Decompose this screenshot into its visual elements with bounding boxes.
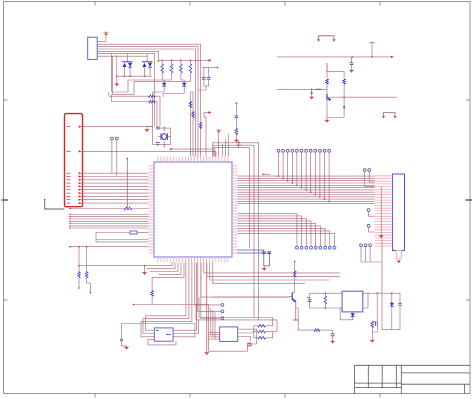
IC U1 left pins [149,166,155,253]
dual diode D1 [122,54,132,76]
wire bundle U1 right lower staircase [238,213,335,246]
wire cap top [202,67,218,69]
test point circles [111,137,119,176]
component RB1 [248,343,251,346]
capacitor C3 [156,127,160,129]
connector J3 [393,174,405,251]
Q2 emitter branch [296,308,335,344]
capacitor C2 [207,67,211,86]
circle J3 mid2 [367,224,374,232]
U3 vertical feeds [209,305,215,340]
circles at J3 top [363,169,374,187]
connector J3 pins [375,176,393,246]
U4 output wires [363,292,392,321]
power arrow mid top [216,130,221,157]
resistor R2 [170,60,173,80]
title block [355,365,471,393]
vertical bus wires [213,143,259,320]
wire cap bottom [198,86,209,90]
resistor R7 [133,277,209,305]
wire loop left 2 [112,56,191,126]
capacitors below U1 right [238,250,272,271]
oscillator Y1 [161,133,168,140]
U4 input wires [307,292,342,308]
resistor R1 [161,60,164,80]
capacitor C1 [202,67,206,86]
circle J3 mid1 [367,209,374,216]
wire bundle U1 top [191,72,201,157]
wire gray stub [44,199,65,209]
ground under diodes [115,76,120,86]
ground at oscillator [145,127,153,133]
power staple TR2 [382,113,397,119]
connector J1 [88,37,98,59]
IC U1 body [154,162,232,257]
wire Q2 base from left [212,296,288,298]
resistor pack RP1 [253,325,277,340]
IC U3 [220,327,238,342]
IC U1 bottom pins [158,257,228,263]
circles row top [277,149,330,202]
power flag above J1 [97,32,108,41]
resistor bus [158,59,212,62]
wire bundle from J1 [97,44,200,126]
wire Q1 base [277,89,327,100]
circles at J3 bottom [360,244,382,262]
IC U4 regulator [342,291,363,312]
IC U1 right pins [232,166,238,253]
ground below IC left [142,265,147,275]
wire bottom-left long [78,263,172,267]
resistor R10 [199,123,202,129]
connector J2 [65,114,83,207]
stub wire right of bus [262,174,270,176]
oscillator wires [153,127,171,148]
power arrow at J3 [379,187,384,239]
power arrow right of bundle [204,111,211,156]
RC chain at U1 top right [234,102,239,142]
bus wire top right [277,56,394,58]
power stub right of U1 [236,142,241,148]
transistor Q2 [289,261,299,320]
transistor Q1 [325,63,397,123]
resistor R4 [189,60,192,80]
wire pair above U3 [196,297,277,331]
U2 loop wires [120,263,194,350]
red vertical to ground [205,263,210,356]
diode D3 [162,80,166,90]
U4 divider resistor R11 [370,322,377,343]
wire bundle J2 to U1 [83,173,149,203]
wire loop left 1 [109,54,172,127]
wire J2 pin1 [83,126,153,128]
capacitor C4 [156,143,160,147]
U3 left wires [209,332,248,351]
wire bundle J2 lower [69,214,148,229]
pullup resistor R5 [78,246,81,289]
diode D4 [181,80,187,90]
U2 right wires [173,263,198,337]
resistor R3 [180,60,183,80]
pullup resistor R6 [85,246,91,294]
wire long left [69,246,148,248]
wire long below IC to Q2 base [201,263,289,298]
circles row bottom [296,246,336,249]
IC U2 [154,328,173,341]
dual diode D2 [142,54,152,76]
stair wires U1 top right [169,134,228,157]
power staple TR1 [317,36,336,42]
power stub above bus [370,43,375,57]
wire with ferrite bead [96,231,149,234]
wire rail under diodes [116,55,152,77]
wire bundle U1 right upper [238,176,375,204]
fanout wires U1 bottom left [147,263,185,278]
wire mid verticals [153,90,185,129]
wire pair [96,233,149,242]
U3 right wires [238,329,257,344]
resistor R9 [192,112,195,118]
resistor R8 [189,102,192,108]
wires to circles column [195,263,224,320]
diode D6 below U4 [340,308,355,320]
capacitor C5 with ground [349,57,354,73]
diode D5 loop [382,239,402,330]
wire J2 bus [83,151,216,156]
fanout wires U1 bottom right staircase [204,263,340,284]
IC U1 top pins [158,157,228,163]
vertical tap wire [127,158,129,209]
connector J3 tab [396,251,401,264]
wire with resistor RS1 [69,207,148,210]
